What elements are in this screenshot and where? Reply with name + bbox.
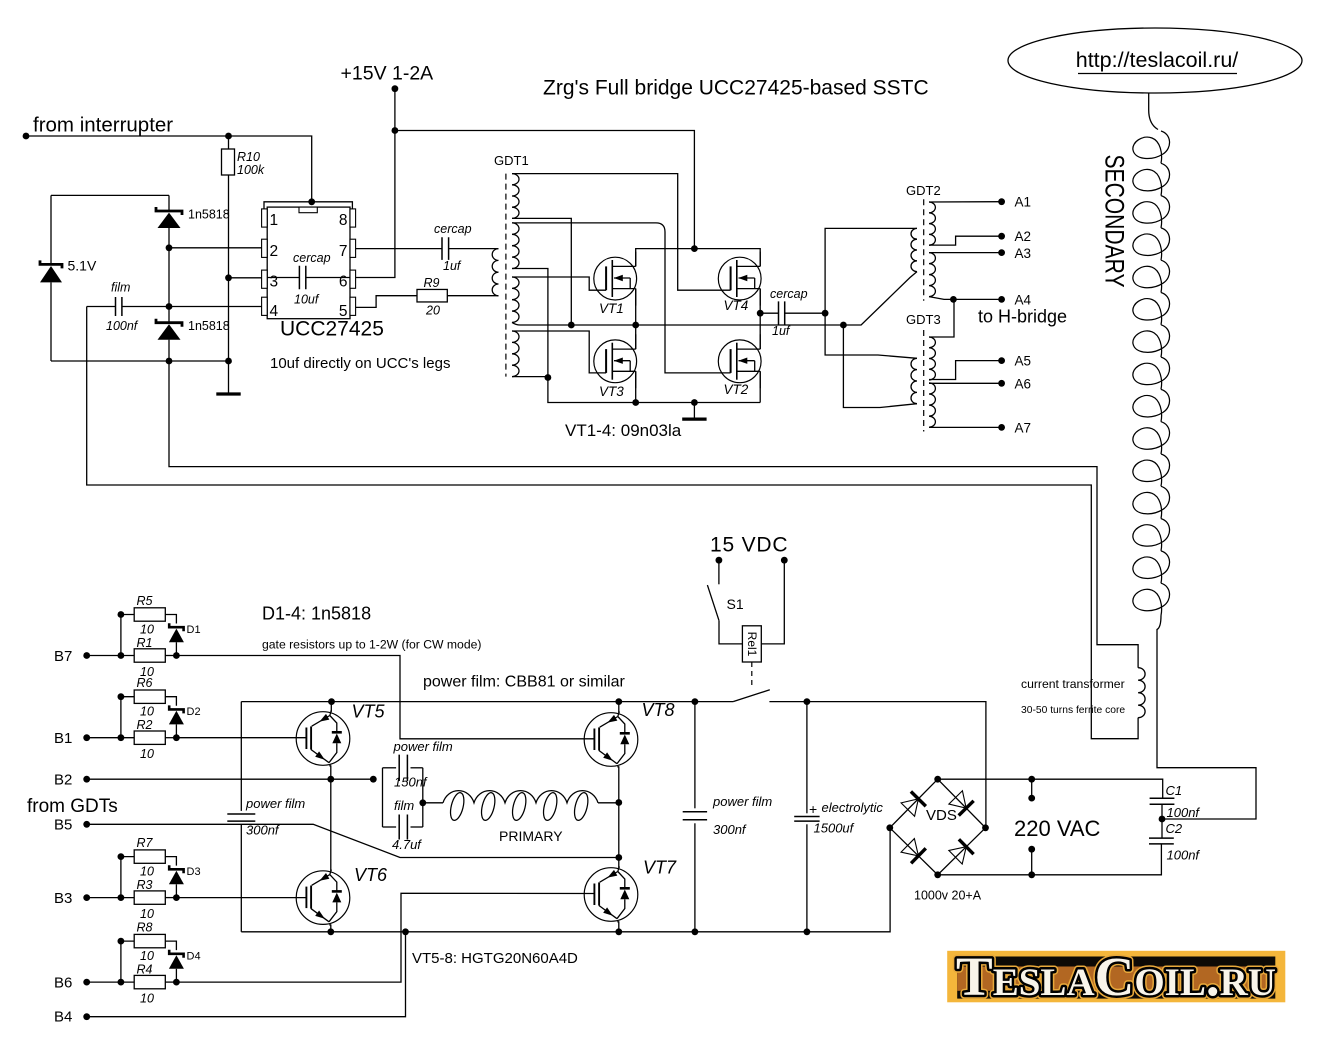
- junction R10/pin3: [225, 274, 232, 281]
- wire A4: [929, 297, 1002, 300]
- svg-text:B4: B4: [54, 1009, 72, 1026]
- transformer GDT1 secondary w1: [512, 174, 519, 219]
- transformer GDT2 secondary w1: [929, 202, 935, 245]
- svg-text:gate resistors up to 1-2W (for: gate resistors up to 1-2W (for CW mode): [262, 638, 481, 652]
- svg-text:1000v 20+A: 1000v 20+A: [914, 888, 982, 902]
- wire R7 branch: [121, 857, 134, 898]
- wire VT8 collector lead: [618, 702, 620, 713]
- svg-text:cercap: cercap: [770, 287, 808, 301]
- svg-text:B5: B5: [54, 817, 72, 834]
- svg-text:10: 10: [140, 623, 154, 637]
- node A2: [998, 233, 1005, 240]
- svg-text:VT5-8: HGTG20N60A4D: VT5-8: HGTG20N60A4D: [412, 950, 578, 967]
- junction VT1 source: [632, 322, 639, 329]
- capacitor film 100nf: [87, 297, 262, 316]
- svg-text:film: film: [111, 281, 130, 295]
- svg-text:100nf: 100nf: [106, 319, 139, 333]
- wire A1: [929, 201, 1002, 203]
- svg-text:from GDTs: from GDTs: [27, 796, 118, 817]
- svg-text:A5: A5: [1015, 354, 1032, 369]
- wire R6 to diode: [165, 697, 176, 706]
- junction bridge top: [934, 776, 941, 783]
- junction electrolytic top: [804, 698, 811, 705]
- svg-text:Rel1: Rel1: [745, 632, 759, 657]
- transformer GDT2 secondary w2: [929, 253, 935, 297]
- svg-text:VT7: VT7: [643, 858, 677, 878]
- junction B6 split: [118, 979, 125, 986]
- junction w1-bottom mid-rail: [568, 322, 575, 329]
- svg-text:D1-4: 1n5818: D1-4: 1n5818: [262, 604, 371, 624]
- wire GDT1-w3-top to VT1 gate: [512, 277, 606, 290]
- node B2: [83, 776, 90, 783]
- wire secondary bottom lead: [1157, 616, 1256, 820]
- svg-text:SECONDARY: SECONDARY: [1099, 155, 1129, 288]
- junction B5 node: [615, 854, 622, 861]
- junction mid-rail/GDT3 branch: [840, 322, 847, 329]
- ground (R10): [216, 392, 240, 395]
- transistor VT8: [584, 712, 638, 768]
- wire GDT1-w1-bottom to mid-rail: [512, 218, 571, 325]
- svg-text:current transformer: current transformer: [1021, 677, 1125, 691]
- transistor VT2: [718, 334, 761, 388]
- node: from interrupter input terminal: [23, 133, 30, 140]
- wire GDT1-w2-top to VT2 gate: [512, 223, 731, 373]
- underline: [1078, 73, 1237, 75]
- wire R5 to diode: [165, 615, 176, 624]
- resistor R1: [134, 649, 165, 662]
- svg-text:10uf directly on UCC's legs: 10uf directly on UCC's legs: [270, 355, 450, 372]
- wire from interrupter to UCC top: [26, 136, 312, 202]
- svg-text:30-50 turns ferrite core: 30-50 turns ferrite core: [1021, 705, 1125, 716]
- wire B3 to VT6 gate: [176, 897, 306, 899]
- diode D3: [169, 865, 184, 897]
- junction 300nf2 top: [692, 698, 699, 705]
- svg-text:150nf: 150nf: [394, 775, 428, 790]
- junction VT3 source rail: [632, 399, 639, 406]
- node mains N upper: [1028, 846, 1035, 853]
- wire B3 input: [87, 897, 135, 899]
- wire +bus rail right: [769, 702, 986, 828]
- diode bridge bottom-right: [948, 839, 973, 864]
- transformer GDT3 core: [923, 330, 925, 432]
- svg-text:10: 10: [140, 747, 154, 761]
- svg-text:VT1: VT1: [599, 301, 624, 316]
- junction B3 split: [118, 894, 125, 901]
- junction R8 left: [118, 938, 125, 945]
- wire bridge top to C1: [938, 779, 1163, 798]
- svg-text:C2: C2: [1166, 821, 1183, 836]
- wire loop line2: [87, 307, 1138, 739]
- svg-text:1500uf: 1500uf: [814, 821, 855, 836]
- wire R8 branch: [121, 941, 134, 982]
- junction cercap/GDT2 node: [822, 310, 829, 317]
- transformer GDT3 primary: [911, 358, 917, 403]
- svg-text:10: 10: [140, 949, 154, 963]
- junction R6 left: [118, 693, 125, 700]
- wire GDT1-w4-top to VT3 gate: [512, 331, 606, 373]
- resistor R8: [134, 934, 165, 947]
- svg-text:D3: D3: [187, 866, 201, 878]
- wire A7: [929, 426, 1002, 428]
- wire -bus rail: [241, 828, 890, 932]
- wire R8 to diode: [165, 941, 176, 950]
- wire A5: [929, 361, 1002, 380]
- relay actuation dashed link: [751, 662, 753, 687]
- transformer GDT2 primary: [911, 228, 917, 271]
- svg-text:15 VDC: 15 VDC: [710, 534, 788, 557]
- wire B7 input: [87, 655, 135, 657]
- node B4: [83, 1013, 90, 1020]
- wire to UCC pin2: [169, 247, 262, 249]
- junction pin2 node: [166, 244, 173, 251]
- svg-text:VT4: VT4: [724, 298, 749, 313]
- svg-text:R7: R7: [137, 836, 154, 850]
- svg-text:10: 10: [140, 907, 154, 921]
- resistor R5: [134, 608, 165, 621]
- junction 300nf2 bottom: [692, 928, 699, 935]
- resistor R7: [134, 850, 165, 863]
- transistor VT7: [584, 867, 638, 923]
- wire mid rail (VT1.s/VT3.d phase A): [512, 272, 917, 325]
- wire VT5 collector lead: [330, 702, 332, 712]
- svg-text:A3: A3: [1015, 246, 1032, 261]
- wire B6 to VT7 gate: [176, 893, 594, 982]
- zener 5.1V: [40, 195, 62, 361]
- svg-text:R2: R2: [137, 718, 153, 732]
- diode bridge bottom-left: [900, 838, 925, 863]
- node A6: [998, 380, 1005, 387]
- svg-text:100nf: 100nf: [1167, 848, 1201, 863]
- wire R2 out: [165, 737, 176, 739]
- resistor R3: [134, 891, 165, 904]
- svg-text:film: film: [394, 798, 414, 813]
- resistor R2: [134, 731, 165, 744]
- junction bridge left: [886, 824, 893, 831]
- resistor R6: [134, 690, 165, 703]
- mains stub upper: [1031, 779, 1033, 798]
- svg-text:+15V 1-2A: +15V 1-2A: [341, 63, 434, 85]
- svg-text:R6: R6: [137, 676, 153, 690]
- rectifier bridge VDS: [890, 779, 986, 875]
- wire A3: [929, 252, 1002, 254]
- node mains L upper: [1028, 776, 1035, 783]
- switch S1: [707, 560, 742, 644]
- svg-text:8: 8: [339, 212, 348, 229]
- node B1: [83, 734, 90, 741]
- junction C1/C2 mid: [1159, 816, 1166, 823]
- wire B6 input: [87, 981, 135, 983]
- svg-text:3: 3: [270, 274, 279, 291]
- svg-text:from interrupter: from interrupter: [33, 114, 173, 137]
- junction bridge bottom: [934, 871, 941, 878]
- capacitor 150nf + 4.7uf block: [383, 755, 423, 840]
- junction electrolytic bottom: [804, 928, 811, 935]
- wire R1 out: [165, 655, 176, 657]
- wire GDT3 primary bottom branch: [843, 325, 917, 408]
- transformer GDT3 secondary w2: [929, 383, 935, 427]
- junction R10 top: [225, 133, 232, 140]
- wire Rel1 to 15VDC-: [761, 560, 784, 644]
- junction VT5 emitter / B2: [327, 776, 334, 783]
- wire B5 to VT7 collector node: [87, 824, 619, 857]
- transistor VT5: [296, 711, 350, 767]
- junction B7 split: [118, 652, 125, 659]
- wire VT8.e-VT7.c: [618, 766, 620, 867]
- junction VT7 emitter: [615, 928, 622, 935]
- diode D upper 1n5818: [156, 195, 182, 322]
- svg-text:C1: C1: [1166, 783, 1183, 798]
- transistor VT6: [296, 870, 350, 926]
- wire GDT2 primary top: [825, 228, 917, 313]
- resistor R10: [222, 149, 235, 175]
- node B6: [83, 979, 90, 986]
- svg-text:D4: D4: [187, 951, 201, 963]
- transformer GDT1 secondary w4: [512, 331, 519, 377]
- svg-text:10: 10: [140, 865, 154, 879]
- resistor R9: [417, 289, 447, 302]
- transformer GDT1 secondary w3: [512, 277, 519, 322]
- capacitor cercap 1uf (output): [760, 301, 825, 325]
- svg-text:B6: B6: [54, 975, 72, 992]
- svg-text:A7: A7: [1015, 421, 1032, 436]
- svg-text:B7: B7: [54, 648, 72, 665]
- capacitor C2: [1149, 838, 1174, 844]
- svg-text:20: 20: [425, 304, 440, 318]
- node mains N lower: [1028, 871, 1035, 878]
- svg-text:TeslaCoil.ru: TeslaCoil.ru: [956, 946, 1276, 1007]
- resistor R4: [134, 975, 165, 988]
- svg-text:100nf: 100nf: [1167, 805, 1201, 820]
- svg-text:7: 7: [339, 243, 348, 260]
- node 15VDC -: [781, 557, 788, 564]
- wire B1 to VT5 gate: [176, 737, 306, 739]
- junction VT5 collector: [328, 698, 335, 705]
- svg-text:power film: power film: [245, 796, 305, 811]
- svg-text:VT1-4: 09n03la: VT1-4: 09n03la: [565, 421, 682, 440]
- wire B1 input: [87, 737, 135, 739]
- wire GDT3-w1-top tap: [929, 299, 954, 337]
- svg-text:GDT1: GDT1: [494, 153, 529, 168]
- junction VT8 collector: [615, 698, 622, 705]
- capacitor cercap 10uf (inside UCC): [267, 266, 350, 289]
- wire VT1-VT3 stack: [635, 289, 637, 350]
- current transformer winding: [1138, 668, 1145, 718]
- svg-text:B1: B1: [54, 730, 72, 747]
- wire +bus rail left: [241, 701, 733, 703]
- svg-text:R8: R8: [137, 921, 153, 935]
- svg-text:10uf: 10uf: [294, 293, 320, 307]
- junction ground node: [691, 399, 698, 406]
- junction R5 left: [118, 611, 125, 618]
- svg-text:A1: A1: [1015, 195, 1032, 210]
- wire R5 branch: [121, 615, 134, 656]
- node B3: [83, 894, 90, 901]
- svg-text:GDT2: GDT2: [906, 183, 941, 198]
- svg-text:R1: R1: [137, 636, 153, 650]
- wire GDT1-w1-top to VT4 gate: [512, 174, 731, 291]
- transistor VT1: [594, 252, 637, 306]
- ground (H-bridge): [693, 403, 695, 420]
- wire VT7 emitter lead: [618, 921, 620, 932]
- diode D2: [169, 705, 184, 737]
- svg-text:220 VAC: 220 VAC: [1014, 816, 1101, 841]
- capacitor electrolytic 1500uf: [794, 702, 819, 932]
- svg-text:VT8: VT8: [642, 700, 675, 720]
- wire pin3 to R10: [229, 277, 262, 279]
- junction R10/bottom-rail: [225, 358, 232, 365]
- svg-text:6: 6: [339, 274, 348, 291]
- svg-text:power film: power film: [712, 794, 772, 809]
- svg-text:VT3: VT3: [599, 384, 624, 399]
- transformer GDT3 secondary w1: [929, 337, 935, 380]
- wire to source rail: [548, 378, 760, 403]
- svg-text:1: 1: [270, 212, 279, 229]
- wire R10 branch / pulldown rail: [228, 136, 230, 394]
- svg-text:D1: D1: [187, 624, 201, 636]
- node A5: [998, 357, 1005, 364]
- wire VT3 source lead: [635, 371, 637, 402]
- svg-text:100k: 100k: [237, 163, 265, 177]
- svg-text:R10: R10: [237, 150, 260, 164]
- node A4: [998, 296, 1005, 303]
- svg-text:R4: R4: [137, 963, 153, 977]
- wire B4 to -bus: [87, 932, 406, 1017]
- wire B2 to VT5 emitter: [87, 778, 374, 780]
- svg-text:electrolytic: electrolytic: [822, 800, 884, 815]
- wire pin5 jog: [356, 296, 417, 308]
- junction B2/box: [370, 776, 377, 783]
- svg-text:to H-bridge: to H-bridge: [978, 307, 1067, 327]
- junction film-cap/pin4 node: [166, 303, 173, 310]
- ellipse teslacoil.ru: [1008, 28, 1302, 93]
- capacitor power film 300nf #2: [683, 702, 707, 932]
- junction box/primary: [419, 799, 426, 806]
- svg-text:VT5: VT5: [352, 702, 386, 722]
- relay coil Rel1: [742, 626, 761, 662]
- wire +15V to pin6: [356, 89, 395, 278]
- transistor VT3: [594, 334, 637, 388]
- wire pin7 out: [356, 248, 442, 250]
- junction UCC top VDD: [308, 198, 315, 205]
- wire A6: [929, 382, 1002, 384]
- wire B7 to VT8 gate: [176, 656, 594, 739]
- wire left bottom: [51, 360, 229, 362]
- svg-text:1uf: 1uf: [772, 324, 791, 338]
- svg-text:VT2: VT2: [724, 382, 749, 397]
- svg-text:R9: R9: [424, 276, 440, 290]
- junction R7 left: [118, 853, 125, 860]
- node A3: [998, 249, 1005, 256]
- svg-text:300nf: 300nf: [713, 822, 747, 837]
- node A1: [998, 198, 1005, 205]
- wire VT5.e-VT6.c: [330, 765, 332, 871]
- diode bridge top-left: [900, 791, 925, 816]
- svg-text:power film: CBB81 or similar: power film: CBB81 or similar: [423, 674, 626, 691]
- mains stub lower: [1031, 849, 1033, 875]
- svg-text:UCC27425: UCC27425: [280, 318, 384, 341]
- svg-text:PRIMARY: PRIMARY: [499, 828, 563, 844]
- svg-text:Zrg's Full bridge UCC27425-bas: Zrg's Full bridge UCC27425-based SSTC: [543, 77, 929, 100]
- wire VT drain rail: [636, 249, 761, 267]
- node B7: [83, 652, 90, 659]
- wire R6 branch: [121, 697, 134, 738]
- svg-text:1uf: 1uf: [443, 259, 462, 273]
- svg-text:1n5818: 1n5818: [188, 319, 230, 333]
- wire ellipse stem: [1149, 93, 1158, 130]
- svg-text:5.1V: 5.1V: [68, 258, 97, 274]
- op-amp U1 UCC27425 body: [262, 202, 356, 319]
- wire VT2 source lead: [759, 371, 761, 402]
- diode D4: [169, 950, 184, 982]
- diode D lower 1n5818: [156, 319, 182, 361]
- node B5: [83, 821, 90, 828]
- svg-text:D2: D2: [187, 706, 201, 718]
- svg-text:10: 10: [140, 705, 154, 719]
- wire top-left box: [51, 194, 169, 196]
- svg-text:S1: S1: [727, 596, 744, 612]
- wire R7 to diode: [165, 857, 176, 866]
- wire R4 out: [165, 981, 176, 983]
- svg-text:VT6: VT6: [354, 865, 388, 885]
- junction diode chain bottom: [166, 358, 173, 365]
- svg-text:2: 2: [270, 243, 279, 260]
- diode bridge top-right: [948, 790, 973, 815]
- inductor PRIMARY: [423, 791, 619, 822]
- svg-text:+: +: [809, 801, 817, 817]
- node 15VDC +: [716, 557, 723, 564]
- junction B4 node: [402, 928, 409, 935]
- wire bridge bottom to C2: [938, 844, 1162, 875]
- junction R2/D2: [173, 734, 180, 741]
- svg-text:A6: A6: [1015, 377, 1032, 392]
- wire VT6 emitter lead: [330, 924, 332, 931]
- junction R1/D1: [173, 652, 180, 659]
- svg-text:4: 4: [270, 303, 279, 320]
- svg-text:R3: R3: [137, 878, 153, 892]
- node mains L lower: [1028, 795, 1035, 802]
- transformer GDT1 core: [505, 174, 507, 377]
- svg-text:cercap: cercap: [293, 251, 331, 265]
- junction R4/D4: [173, 979, 180, 986]
- node +15V terminal: [392, 85, 399, 92]
- junction primary right node: [615, 799, 622, 806]
- svg-text:cercap: cercap: [434, 222, 472, 236]
- svg-text:10: 10: [140, 992, 154, 1006]
- junction B1 split: [118, 734, 125, 741]
- svg-text:http://teslacoil.ru/: http://teslacoil.ru/: [1076, 48, 1239, 72]
- svg-text:A2: A2: [1015, 229, 1032, 244]
- wire VT4-VT2 stack: [759, 289, 761, 350]
- svg-text:R5: R5: [137, 594, 153, 608]
- svg-text:A4: A4: [1015, 293, 1032, 308]
- node A7: [998, 424, 1005, 431]
- junction VT6 emitter: [327, 928, 334, 935]
- svg-text:VDS: VDS: [926, 807, 957, 824]
- wire R3 out: [165, 897, 176, 899]
- svg-text:1n5818: 1n5818: [188, 208, 230, 222]
- capacitor power film 300nf #1: [227, 702, 255, 932]
- svg-text:GDT3: GDT3: [906, 312, 941, 327]
- wire R9 to GDT1 primary: [447, 295, 498, 297]
- wire GDT1-w2-bottom down: [512, 269, 548, 378]
- junction R3/D3: [173, 894, 180, 901]
- junction w2/w4 bottoms: [545, 374, 552, 381]
- junction +15V on VT rail: [691, 245, 698, 252]
- svg-text:power film: power film: [393, 739, 453, 754]
- junction A4 tap: [950, 296, 957, 303]
- junction VT4 source: [757, 310, 764, 317]
- svg-text:4.7uf: 4.7uf: [392, 837, 422, 852]
